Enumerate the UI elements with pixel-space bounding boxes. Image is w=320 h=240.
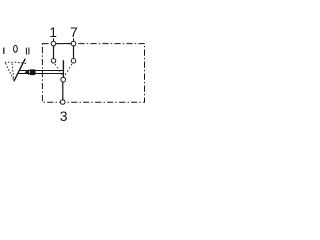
pusher block with arrow [25, 69, 36, 75]
actuator shaft lower line [18, 73, 64, 75]
lever (solid, position II) [14, 59, 25, 82]
wire: fixed contact bar from pin 7 [73, 46, 75, 59]
dashed lever position 0 [12, 63, 14, 80]
enclosure dashed box [42, 44, 144, 103]
svg-text:1: 1 [49, 24, 57, 40]
fixed contact circle (pin 1 side) [51, 59, 56, 64]
pivot circle (common) [61, 77, 66, 82]
wire: stem from pivot to pin 3 [62, 82, 64, 100]
position label II [25, 48, 27, 55]
moving contact arm (position 0, vertical) [62, 60, 64, 77]
terminal circle pin 3 [60, 100, 65, 105]
terminal circle pin 1 [51, 41, 56, 46]
dashed lever position I [6, 63, 14, 80]
terminal circle pin 7 [71, 41, 76, 46]
fixed contact circle (pin 7 side) [71, 59, 76, 64]
wire: solid segment of top edge between pin1 and pin7 circles [56, 43, 70, 45]
svg-text:7: 7 [70, 24, 78, 40]
pin 7 stub [73, 38, 75, 41]
svg-text:3: 3 [60, 108, 68, 124]
dashed alternate position I (to pin 1 contact) [55, 64, 62, 75]
dashed alternate position II (to pin 7 contact) [65, 64, 72, 75]
actuator shaft upper line [19, 70, 63, 72]
pin 1 stub [53, 38, 55, 41]
position label 0 [14, 45, 18, 52]
position label I [3, 48, 5, 54]
wire: fixed contact bar from pin 1 [53, 46, 55, 59]
dashed travel arc [5, 62, 26, 63]
